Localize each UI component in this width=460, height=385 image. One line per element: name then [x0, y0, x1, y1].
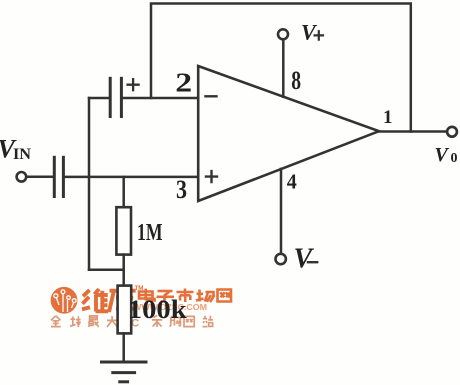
svg-text:0: 0	[451, 151, 458, 166]
svg-text:V: V	[294, 244, 315, 275]
svg-text:1M: 1M	[137, 220, 163, 246]
svg-text:8: 8	[291, 66, 301, 95]
svg-text:100k: 100k	[128, 295, 188, 324]
svg-text:V: V	[301, 20, 318, 45]
svg-text:V: V	[435, 144, 450, 166]
svg-text:1: 1	[383, 107, 393, 128]
svg-text:3: 3	[176, 175, 187, 204]
svg-text:IN: IN	[13, 146, 31, 163]
svg-text:4: 4	[287, 169, 297, 193]
svg-text:2: 2	[175, 67, 192, 97]
